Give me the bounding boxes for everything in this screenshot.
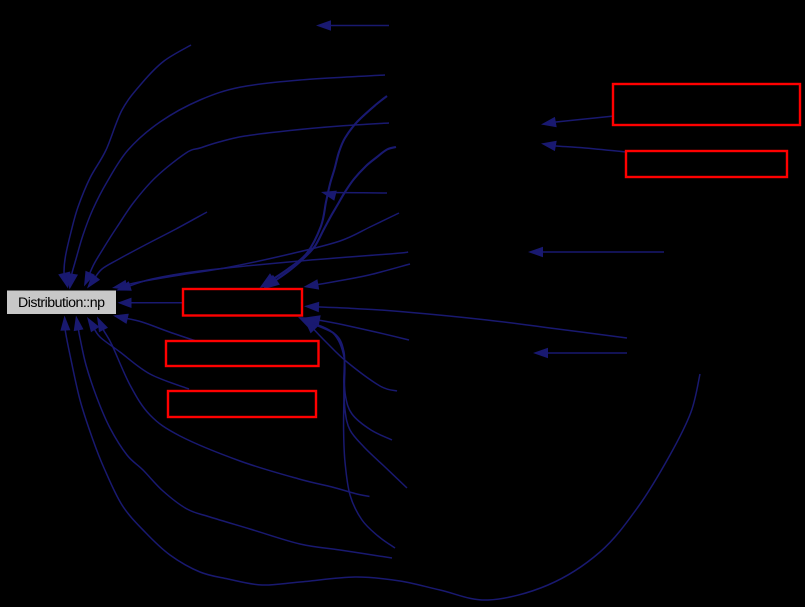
edge from box4 xyxy=(87,317,189,389)
red node box R4 xyxy=(168,391,316,417)
red node box R2 xyxy=(626,151,787,177)
edge arrow y252 xyxy=(528,247,664,257)
edge E4 from (389,123) xyxy=(84,123,389,287)
red node box R1 top right xyxy=(613,84,800,125)
edge from box3 xyxy=(113,314,196,341)
edge M2 trunk from (403,487) xyxy=(300,318,408,489)
edge arrow to top node xyxy=(316,20,389,30)
edge from red box R1 xyxy=(541,116,614,127)
red node box RM middle xyxy=(183,289,302,316)
edge B1 from (369,497) xyxy=(97,317,370,497)
edge E15 from (627,338) xyxy=(304,302,627,338)
edge E3 from (385,75) xyxy=(66,75,385,290)
edge from red box R2 xyxy=(541,141,626,152)
edge diag from (207,212) xyxy=(87,212,207,289)
edge M3 trunk from (395,548) xyxy=(298,317,395,548)
edge bundle c to middle box xyxy=(263,147,397,290)
edge E14 corner of middle box xyxy=(304,264,411,290)
edge E1 steep from (191,45) xyxy=(58,45,191,289)
svg-text:Distribution::np: Distribution::np xyxy=(18,295,105,311)
edge B2 from (392,558) xyxy=(74,316,392,559)
edge M5 from (409,340) xyxy=(305,315,409,340)
edge M1 trunk from (392,440) xyxy=(301,319,392,441)
edge B3 big loop from (700,374) xyxy=(60,316,700,601)
edge M4 from (397,391) xyxy=(304,319,397,391)
red node box R3 xyxy=(166,341,319,366)
edge middle box to grey node xyxy=(118,298,184,308)
edge E5 from (399,213) xyxy=(112,213,399,290)
edge arrow y353 xyxy=(533,348,627,358)
edge E6 from (408,252) xyxy=(116,252,408,291)
node Distribution::np (current node, grey fill) xyxy=(7,291,116,315)
edge arrow to node at 321,192 xyxy=(321,191,387,201)
edge bundle a to middle box xyxy=(260,96,388,288)
